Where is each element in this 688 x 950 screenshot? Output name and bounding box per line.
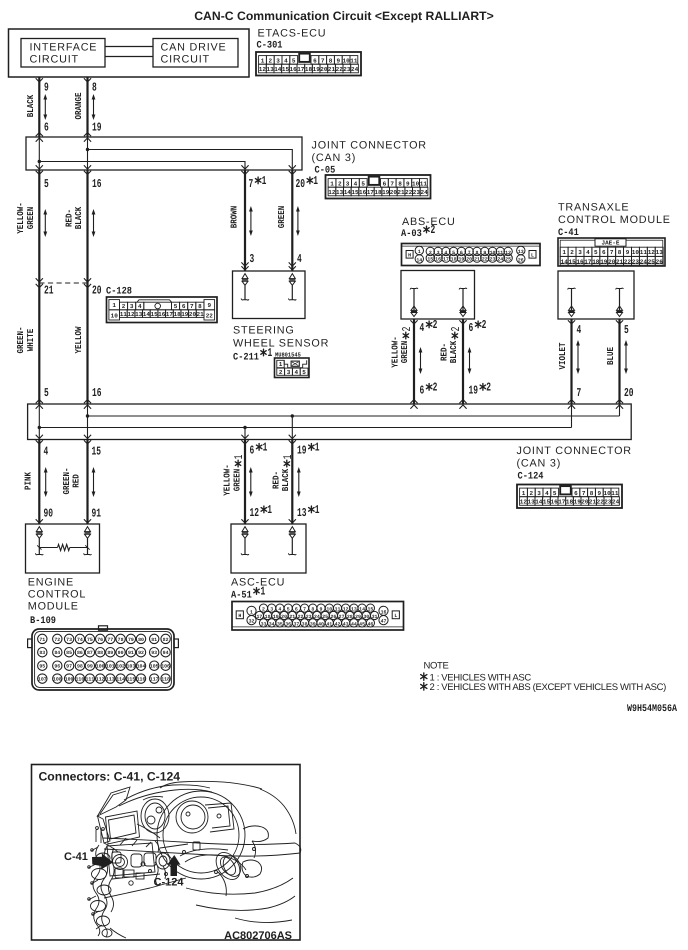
branch wire to pin 7 (CAN L internal) [38,160,245,170]
svg-text:90: 90 [118,650,124,656]
svg-text:8: 8 [398,180,402,187]
svg-text:104: 104 [137,664,146,670]
svg-text:5: 5 [624,323,629,337]
svg-text:5: 5 [44,386,49,400]
svg-text:17: 17 [584,258,592,265]
figure title Connectors: C-41, C-124 [39,770,181,784]
svg-text:7: 7 [390,180,394,187]
svg-text:25: 25 [505,257,511,263]
svg-text:15: 15 [543,498,551,505]
svg-text:BLUE: BLUE [606,347,616,365]
svg-text:1: 1 [112,302,116,309]
svg-text:87: 87 [87,650,93,656]
wire VIOLET pin 4 to pin 7 [568,319,575,409]
svg-text:44: 44 [351,622,357,628]
svg-text:JAE-E: JAE-E [601,240,619,247]
wire GREEN-RED pin 15 to pin 91 [84,435,91,524]
connector C-211 [275,358,310,378]
svg-text:8: 8 [476,250,479,256]
svg-text:15: 15 [351,189,359,196]
svg-text:CIRCUIT: CIRCUIT [30,53,79,65]
svg-text:GREEN: GREEN [232,469,242,492]
svg-text:10: 10 [412,180,420,187]
svg-text:9: 9 [597,490,601,497]
wire YELLOW pin 20 to pin 16 [84,283,91,409]
label RED-BLACK *2 [439,327,463,364]
label RED-BLACK [64,206,84,229]
svg-text:19: 19 [181,311,189,318]
svg-text:19: 19 [574,498,582,505]
wire RED-BLACK *2 pin 6 to pin 19 [459,319,466,409]
svg-text:20: 20 [189,311,197,318]
terminating resistor [37,544,90,550]
svg-text:72: 72 [54,637,60,643]
svg-text:7: 7 [577,386,582,400]
svg-text:8: 8 [92,81,97,95]
joint connector C-05 box [26,137,302,170]
wire GREEN pin 20 to pin 4 [289,165,296,271]
svg-text:RED-: RED- [64,209,74,227]
svg-text:C-124: C-124 [154,877,185,889]
svg-text:38: 38 [302,622,308,628]
svg-text:22: 22 [482,257,488,263]
svg-text:13: 13 [135,311,143,318]
svg-text:ETACS-ECU: ETACS-ECU [258,28,327,40]
wire BLACK pin 9 to pin 6 [36,77,43,142]
svg-text:3: 3 [578,249,582,256]
svg-text:42: 42 [335,622,341,628]
drawing number W9H54M056A [627,704,677,715]
pin 20 *1 [296,174,319,191]
svg-text:C-211: C-211 [233,353,259,364]
steering wheel sensor box [233,271,306,319]
TCM terminal pin 4 [568,288,576,316]
svg-text:25: 25 [648,258,656,265]
pin 20 lower [624,386,634,400]
svg-text:10: 10 [603,490,611,497]
svg-text:9: 9 [336,57,340,64]
svg-text:7: 7 [610,249,614,256]
svg-text:12: 12 [648,249,656,256]
note text [421,661,666,694]
ASC terminal pin 12 [241,527,249,555]
pin 15 [92,445,102,459]
svg-text:15: 15 [427,257,433,263]
label YELLOW-GREEN *2 [390,327,414,368]
svg-text:13: 13 [297,506,307,520]
svg-text:GREEN-: GREEN- [62,468,72,495]
pin 3 [250,252,255,266]
svg-text:CAN-C Communication Circuit <E: CAN-C Communication Circuit <Except RALL… [194,9,494,23]
svg-text:85: 85 [66,650,72,656]
svg-text:24: 24 [612,498,620,505]
connector location figure box [32,765,301,941]
svg-text:5: 5 [287,607,290,613]
svg-text:14: 14 [561,258,569,265]
svg-text:12: 12 [505,250,511,256]
svg-text:95: 95 [39,664,45,670]
svg-text:24: 24 [640,258,648,265]
svg-text:20: 20 [92,284,102,298]
svg-text:5: 5 [302,369,306,376]
svg-text:93: 93 [151,650,157,656]
label VIOLET [558,342,568,369]
svg-text:JOINT CONNECTOR: JOINT CONNECTOR [517,445,632,457]
svg-text:11: 11 [611,490,619,497]
svg-text:RED: RED [71,474,81,488]
svg-text:20: 20 [608,258,616,265]
svg-text:20: 20 [466,257,472,263]
svg-text:20: 20 [320,66,328,73]
svg-text:15: 15 [150,311,158,318]
wire YELLOW-GREEN pin 5 to pin 21 [36,165,43,287]
svg-text:34: 34 [269,622,275,628]
arrow ORANGE [92,94,96,120]
wire YELLOW-GREEN *1 pin 6 to pin 12 [241,435,248,524]
wire BROWN pin 7 to pin 3 [241,165,248,271]
svg-text:6: 6 [469,321,474,335]
pin 16 lower [92,386,102,400]
svg-text:21: 21 [44,284,54,298]
wire inside C-05 from pin 19 to pin 16 [87,137,89,170]
internal CAN H bus wire [86,404,620,440]
terminal pin 3 [241,274,249,301]
svg-text:17: 17 [367,189,375,196]
svg-text:106: 106 [161,664,170,670]
svg-text:14: 14 [274,66,282,73]
pin 7 lower [577,386,582,400]
svg-text:8: 8 [311,607,314,613]
svg-text:ASC-ECU: ASC-ECU [231,577,285,589]
connector C-128 [107,297,218,323]
svg-text:1: 1 [313,174,318,188]
pin 6 *1 [250,440,268,457]
inline connector C-128 dashed line [39,282,87,284]
svg-text:3: 3 [537,490,541,497]
svg-text:2: 2 [433,318,438,332]
svg-text:2: 2 [338,180,342,187]
svg-text:PINK: PINK [24,472,34,490]
svg-text:40: 40 [318,622,324,628]
svg-text:15: 15 [282,66,290,73]
terminal pin 4 [288,274,296,301]
svg-text:1: 1 [330,180,334,187]
svg-text:1: 1 [250,609,253,615]
svg-text:18: 18 [566,498,574,505]
svg-text:CIRCUIT: CIRCUIT [161,53,210,65]
svg-text:33: 33 [261,622,267,628]
svg-text:7: 7 [582,490,586,497]
svg-text:103: 103 [126,664,135,670]
svg-text:ENGINE: ENGINE [28,577,74,589]
svg-text:118: 118 [161,677,170,683]
svg-text:9: 9 [207,302,211,309]
svg-text:6: 6 [574,490,578,497]
svg-text:STEERING: STEERING [233,325,295,337]
C-124 label and arrow [154,855,185,889]
svg-text:ABS-ECU: ABS-ECU [402,216,456,228]
pin 9 [44,81,49,95]
svg-text:4: 4 [294,369,298,376]
svg-text:80: 80 [138,637,144,643]
svg-text:10: 10 [632,249,640,256]
svg-text:15: 15 [92,445,102,459]
svg-text:L: L [531,253,534,259]
svg-text:101: 101 [106,664,115,670]
svg-text:3: 3 [130,303,134,310]
svg-text:13: 13 [656,249,664,256]
wire inside C-05 from pin 6 to pin 5 [38,137,40,170]
svg-text:22: 22 [336,66,344,73]
svg-text:6: 6 [313,57,317,64]
svg-text:4: 4 [278,607,281,613]
svg-text:1: 1 [281,455,295,460]
C-41 label and arrow [64,851,113,870]
svg-text:114: 114 [116,677,125,683]
ABS terminal pin 6 [459,288,467,316]
figure number AC802706AS [224,930,292,942]
svg-text:16: 16 [92,386,102,400]
svg-text:16: 16 [158,311,166,318]
svg-text:2: 2 [529,490,533,497]
svg-text:98: 98 [77,664,83,670]
svg-text:110: 110 [75,677,84,683]
svg-text:35: 35 [277,622,283,628]
svg-text:10: 10 [490,250,496,256]
svg-text:115: 115 [126,677,135,683]
wire YELLOW-GREEN *2 pin 4 to pin 6 [410,319,417,409]
CAN drive circuit block [153,39,238,68]
svg-text:97: 97 [66,664,72,670]
label YELLOW-GREEN [16,202,36,234]
svg-text:7: 7 [468,250,471,256]
svg-text:5: 5 [44,177,49,191]
arrow VIOLET [576,340,580,374]
svg-text:7: 7 [249,177,254,191]
svg-text:11: 11 [420,180,428,187]
svg-text:16: 16 [550,498,558,505]
svg-text:21: 21 [328,66,336,73]
connector C-124 [517,485,622,509]
svg-text:6: 6 [250,444,255,458]
svg-text:74: 74 [77,637,83,643]
svg-text:AC802706AS: AC802706AS [224,930,292,942]
svg-text:12: 12 [259,66,267,73]
label BLACK [26,94,36,117]
svg-text:11: 11 [350,57,358,64]
svg-text:73: 73 [66,637,72,643]
svg-text:21: 21 [196,311,204,318]
svg-text:8: 8 [618,249,622,256]
svg-text:11: 11 [120,311,128,318]
svg-text:YELLOW: YELLOW [74,326,84,353]
svg-text:TRANSAXLE: TRANSAXLE [558,202,629,214]
svg-text:VIOLET: VIOLET [558,342,568,369]
svg-text:108: 108 [53,677,62,683]
svg-text:12: 12 [520,498,528,505]
svg-text:47: 47 [381,619,387,625]
svg-text:86: 86 [77,650,83,656]
car dashboard illustration [88,781,301,938]
svg-text:5: 5 [594,249,598,256]
svg-text:CONTROL: CONTROL [28,589,86,601]
transaxle control module label [558,202,671,240]
pin 19 *1 [297,440,320,457]
svg-text:5: 5 [452,250,455,256]
ABS-ECU box [401,271,475,320]
svg-text:2: 2 [279,369,283,376]
svg-text:43: 43 [343,622,349,628]
svg-text:71: 71 [39,637,45,643]
svg-text:24: 24 [420,189,428,196]
pin 4 *2 [420,318,438,335]
svg-text:7: 7 [303,607,306,613]
svg-text:77: 77 [107,637,113,643]
svg-text:WHITE: WHITE [26,328,36,351]
connector B-109 [28,626,179,690]
svg-text:19: 19 [313,66,321,73]
svg-text:1: 1 [261,57,265,64]
svg-text:BROWN: BROWN [230,206,240,229]
svg-text:20: 20 [624,386,634,400]
svg-text:24: 24 [351,66,359,73]
svg-text:13: 13 [527,498,535,505]
pin 13 *1 [297,503,320,520]
svg-text:89: 89 [107,650,113,656]
arrow GREEN-RED [92,467,96,497]
svg-text:81: 81 [151,637,157,643]
svg-text:JOINT CONNECTOR: JOINT CONNECTOR [312,140,427,152]
label BLUE [606,347,616,365]
svg-text:18: 18 [173,311,181,318]
svg-text:RED-: RED- [271,471,281,489]
svg-text:BLACK: BLACK [449,340,459,363]
svg-text:WHEEL SENSOR: WHEEL SENSOR [233,338,329,350]
svg-text:A-51: A-51 [231,591,252,602]
svg-text:82: 82 [163,637,169,643]
label GREEN [277,206,287,229]
svg-text:14: 14 [143,311,151,318]
svg-text:17: 17 [297,66,305,73]
svg-text:9: 9 [626,249,630,256]
svg-text:37: 37 [293,622,299,628]
svg-text:1: 1 [263,440,268,454]
svg-text:84: 84 [54,650,60,656]
svg-text:32: 32 [249,619,255,625]
arrow RB1 [297,467,301,497]
svg-text:5: 5 [553,490,557,497]
ECM terminal pin 91 [84,527,92,555]
svg-text:22: 22 [624,258,632,265]
svg-text:112: 112 [96,677,105,683]
svg-text:6: 6 [602,249,606,256]
arrow PINK [44,467,48,497]
svg-text:10: 10 [111,313,119,320]
svg-text:1: 1 [522,490,526,497]
ECM terminal pin 90 [35,527,43,555]
pin 7 *1 [249,174,267,191]
svg-text:21: 21 [397,189,405,196]
svg-text:B-109: B-109 [30,616,56,627]
pin 16 [92,177,102,191]
svg-text:(CAN 3): (CAN 3) [312,152,357,164]
svg-text:23: 23 [632,258,640,265]
svg-text:111: 111 [85,677,94,683]
pin 19 *2 [469,380,492,397]
label RED-BLACK *1 [271,455,295,492]
pin 4 TCM [577,323,582,337]
svg-text:3: 3 [270,607,273,613]
joint connector C-124 bus box [28,404,632,440]
label GREEN-RED [62,468,82,495]
svg-text:2: 2 [431,223,436,237]
pin 4 lower [44,445,49,459]
svg-text:83: 83 [39,650,45,656]
pin 90 [44,507,54,521]
svg-text:4: 4 [284,57,288,64]
svg-text:75: 75 [87,637,93,643]
TCM terminal pin 5 [616,288,624,316]
svg-text:23: 23 [604,498,612,505]
arrow YELLOW-GREEN [43,209,47,237]
svg-text:YELLOW-: YELLOW- [223,464,233,496]
svg-text:4: 4 [354,180,358,187]
svg-text:6: 6 [295,607,298,613]
svg-text:2: 2 [429,250,432,256]
svg-text:96: 96 [54,664,60,670]
svg-text:20: 20 [581,498,589,505]
svg-text:16: 16 [576,258,584,265]
svg-text:92: 92 [138,650,144,656]
engine control module label [28,577,86,627]
svg-text:6: 6 [383,180,387,187]
svg-text:21: 21 [589,498,597,505]
svg-text:16: 16 [435,257,441,263]
svg-text:11: 11 [640,249,648,256]
svg-text:22: 22 [405,189,413,196]
svg-text:2: 2 [449,327,463,332]
svg-text:3: 3 [437,250,440,256]
svg-text:18: 18 [305,66,313,73]
svg-text:116: 116 [137,677,146,683]
svg-text:45: 45 [359,622,365,628]
svg-text:1: 1 [267,503,272,517]
pin 21 [44,284,54,298]
svg-text:3: 3 [346,180,350,187]
pin 5 lower [44,386,49,400]
label BROWN [230,206,240,229]
svg-text:1: 1 [261,585,266,599]
connector A-51 [232,602,404,631]
svg-text:23: 23 [343,66,351,73]
wire BLUE pin 5 to pin 20 [616,319,623,409]
svg-text:16: 16 [381,609,387,615]
svg-text:5: 5 [361,180,365,187]
svg-text:2: 2 [482,318,487,332]
pin 8 [92,81,97,95]
svg-text:9: 9 [320,607,323,613]
wire ORANGE pin 8 to pin 19 [84,77,91,142]
svg-text:1: 1 [562,249,566,256]
svg-text:1: 1 [262,174,267,188]
svg-text:12: 12 [328,189,336,196]
joint connector CAN 3 label (C-05) [312,140,427,177]
svg-text:19: 19 [469,384,479,398]
arrow BROWN [249,206,253,236]
label GREEN-WHITE [16,327,36,354]
svg-text:26: 26 [656,258,664,265]
ASC-ECU label [231,577,285,602]
